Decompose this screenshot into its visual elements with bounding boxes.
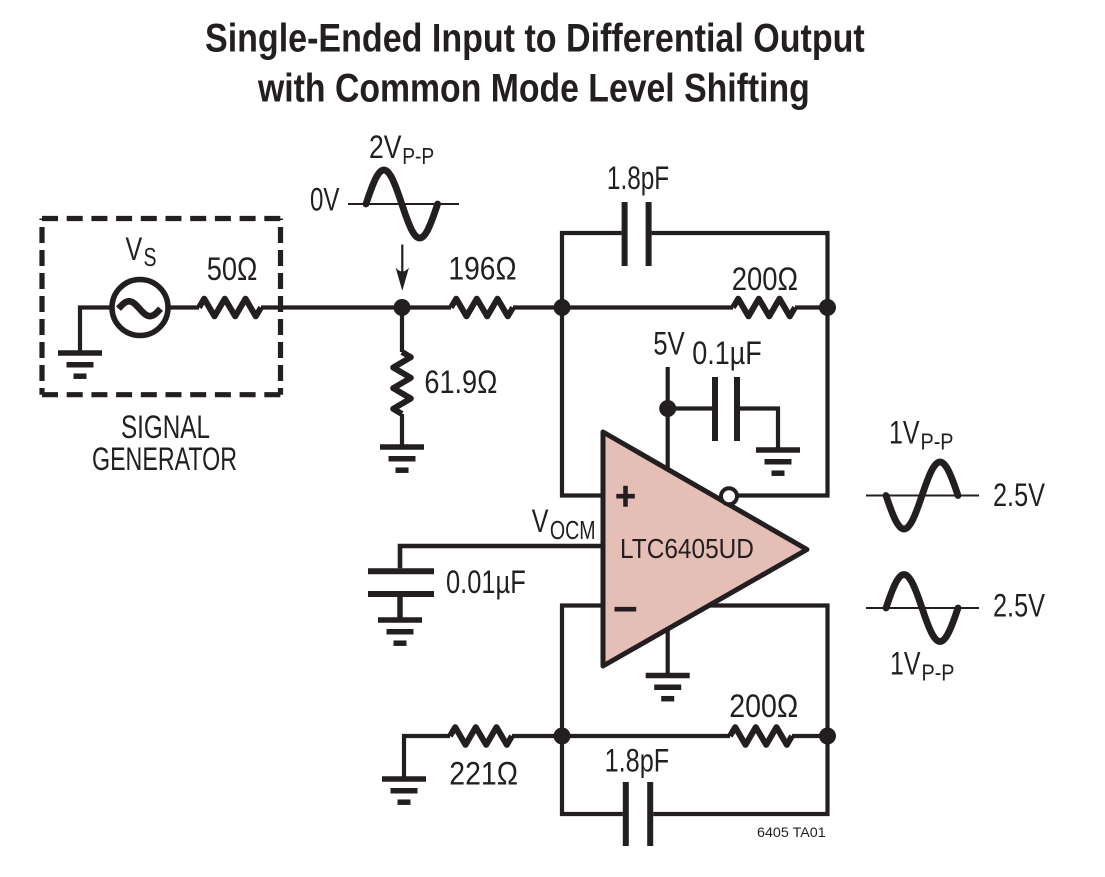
svg-text:50Ω: 50Ω (207, 252, 258, 288)
svg-text:V: V (126, 232, 143, 268)
wire 61.9ohm to ground (400, 414, 404, 447)
ground op-amp (646, 673, 690, 679)
svg-text:S: S (144, 242, 157, 271)
svg-text:6405 TA01: 6405 TA01 (757, 825, 826, 841)
svg-text:5V: 5V (653, 327, 685, 362)
svg-text:P-P: P-P (922, 660, 955, 686)
ground 0.01uF (378, 617, 422, 623)
input sine wave 2VP-P (366, 170, 438, 238)
capacitor 1.8pF top (622, 202, 628, 266)
wire +in node to 200ohm (562, 305, 733, 309)
minus input symbol (615, 607, 637, 612)
wire 5V stub (666, 367, 670, 469)
wire 196ohm to +in node (513, 305, 562, 309)
output waveform top axis (866, 495, 979, 497)
svg-text:0.1µF: 0.1µF (692, 336, 761, 372)
wire 50ohm to input node (261, 305, 451, 309)
svg-text:2.5V: 2.5V (993, 478, 1046, 514)
svg-text:with Common Mode Level Shiftin: with Common Mode Level Shifting (257, 65, 810, 110)
node 5V junction (659, 400, 676, 417)
wire top rail right (652, 233, 828, 496)
wire node down to 61.9ohm (400, 308, 404, 353)
ground 221ohm (382, 776, 426, 782)
ground stem under op-amp (666, 629, 670, 674)
node bottom right junction (819, 728, 836, 745)
input waveform axis (348, 203, 459, 205)
wire -in node to 200ohm bottom (562, 734, 730, 738)
wire left vertical bottom feedback (562, 606, 623, 815)
wire left vertical top feedback (562, 233, 622, 496)
sine inside source (119, 301, 161, 316)
wire 5V node to 0.1uF (668, 406, 712, 410)
svg-text:V: V (532, 504, 549, 540)
capacitor 0.1uF (712, 377, 718, 441)
resistor 221ohm (450, 727, 512, 745)
svg-text:P-P: P-P (402, 144, 434, 169)
voltage source VS circle (112, 280, 168, 336)
svg-text:Single-Ended Input to Differen: Single-Ended Input to Differential Outpu… (205, 15, 865, 60)
svg-text:2V: 2V (369, 130, 402, 166)
capacitor 1.8pF bottom (623, 782, 629, 846)
svg-text:221Ω: 221Ω (449, 757, 518, 792)
plus input symbol (616, 494, 635, 499)
svg-text:P-P: P-P (921, 429, 954, 455)
node +in junction (554, 299, 571, 316)
svg-text:1V: 1V (890, 647, 920, 683)
svg-text:2.5V: 2.5V (993, 589, 1046, 625)
svg-text:1.8pF: 1.8pF (605, 744, 670, 780)
svg-text:0.01µF: 0.01µF (446, 565, 526, 600)
wire 221ohm left leg (404, 736, 450, 778)
svg-text:LTC6405UD: LTC6405UD (620, 532, 754, 564)
capacitor 0.01uF (368, 568, 434, 574)
resistor 61.9ohm (393, 352, 411, 414)
svg-text:1V: 1V (889, 416, 919, 452)
ground signal generator (58, 350, 102, 356)
output sine bottom (886, 575, 958, 642)
op-amp LTC6405UD triangle (603, 432, 807, 666)
wire VOCM (400, 546, 604, 568)
output bubble (721, 488, 737, 504)
node -in junction (554, 728, 571, 745)
svg-text:196Ω: 196Ω (448, 252, 516, 287)
svg-text:200Ω: 200Ω (729, 689, 798, 724)
ground 0.1uF (756, 447, 800, 453)
resistor 200ohm top (733, 299, 795, 317)
svg-text:1.8pF: 1.8pF (607, 161, 669, 197)
output sine top inverted (886, 462, 958, 529)
wire -out to right vertical (653, 606, 827, 815)
node input junction (394, 299, 411, 316)
ground 61.9ohm (380, 444, 424, 450)
resistor 196ohm (451, 299, 513, 317)
svg-text:0V: 0V (310, 182, 340, 218)
resistor 50ohm (199, 299, 261, 317)
svg-text:GENERATOR: GENERATOR (92, 441, 237, 476)
signal generator dashed box (42, 216, 281, 221)
wire source left to ground (80, 308, 113, 354)
resistor 200ohm bottom (730, 727, 792, 745)
node top right junction (819, 299, 836, 316)
svg-text:OCM: OCM (550, 515, 596, 544)
svg-text:200Ω: 200Ω (732, 262, 798, 297)
arrow to input node (401, 245, 403, 274)
output waveform bottom axis (866, 607, 979, 609)
wire source to 50ohm (167, 305, 199, 309)
svg-text:61.9Ω: 61.9Ω (424, 365, 497, 401)
wire 0.1uF to ground (740, 409, 778, 451)
